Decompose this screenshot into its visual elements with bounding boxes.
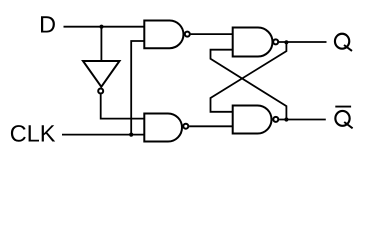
wire U3 output to Q xyxy=(279,41,327,43)
junction node Q xyxy=(284,40,288,44)
wire Qbar feedback from U4 output to U3 input B xyxy=(211,50,287,120)
wire U4 output to Qbar xyxy=(279,119,326,121)
label Q xyxy=(335,34,352,51)
wire D to U1 input A xyxy=(64,26,145,28)
nand gate U3 xyxy=(233,28,279,57)
nand gate U1 xyxy=(144,21,190,49)
junction node Qbar xyxy=(284,117,288,121)
wire inverter U5 output to U2 input A xyxy=(101,94,144,118)
wire CLK to U2 input B xyxy=(62,134,144,136)
wire D junction to inverter U5 xyxy=(100,27,102,61)
junction node CLK xyxy=(129,133,133,137)
inverter U5 xyxy=(83,61,120,94)
nand gate U4 xyxy=(233,106,279,134)
wire Q feedback from U3 output to U4 input A xyxy=(211,42,287,112)
nand gate U2 xyxy=(144,114,188,142)
wire CLK junction to U1 input B xyxy=(131,41,144,135)
wire U1 output to U3 input A xyxy=(191,33,233,35)
junction node D xyxy=(99,25,103,29)
label CLK xyxy=(11,125,55,142)
wire U2 output to U4 input B xyxy=(189,125,232,127)
label Qbar xyxy=(335,107,352,129)
label D xyxy=(41,16,55,32)
